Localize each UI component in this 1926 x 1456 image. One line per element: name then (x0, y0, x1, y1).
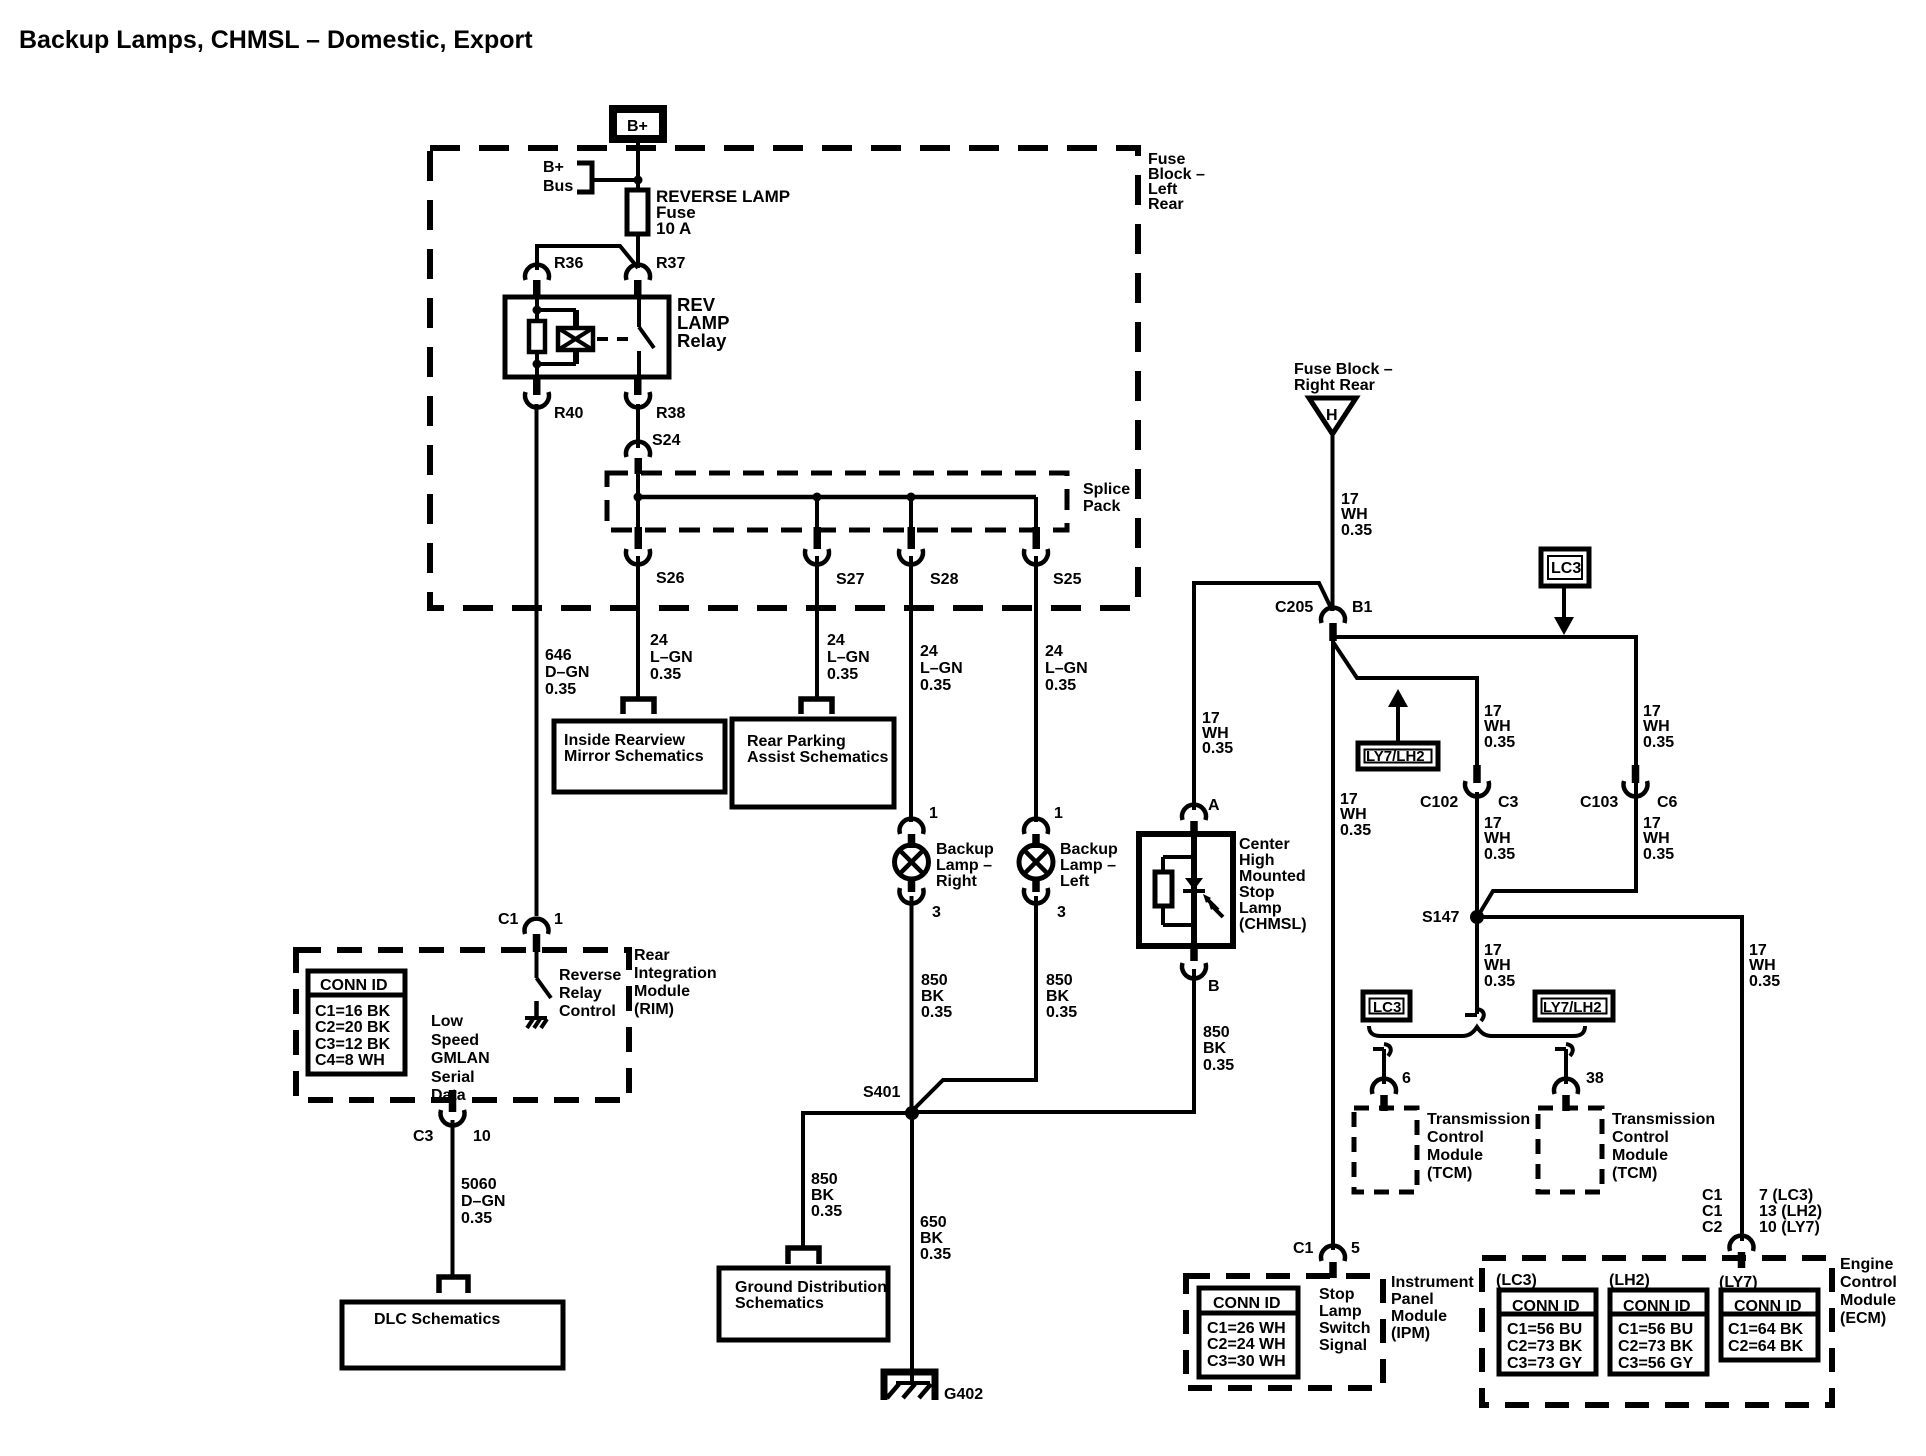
label wire 850 BK 0.35 (CHMSL) (1203, 1024, 1234, 1074)
svg-text:0.35: 0.35 (545, 681, 576, 698)
svg-text:0.35: 0.35 (1046, 1004, 1077, 1021)
svg-text:7 (LC3): 7 (LC3) (1759, 1187, 1813, 1204)
label Instrument Panel Module (IPM) (1391, 1274, 1474, 1342)
svg-text:0.35: 0.35 (1340, 822, 1371, 839)
svg-text:WH: WH (1484, 718, 1511, 735)
svg-text:Module: Module (1612, 1147, 1668, 1164)
box Rear Parking Assist Schematics (732, 719, 894, 807)
label wire 5060 D-GN 0.35 (461, 1176, 505, 1227)
svg-text:C2: C2 (1702, 1219, 1723, 1236)
svg-text:S25: S25 (1053, 571, 1082, 588)
svg-text:B+: B+ (543, 159, 564, 176)
wire C102 to S147 (1475, 792, 1479, 917)
svg-text:WH: WH (1341, 506, 1368, 523)
svg-text:C2=73 BK: C2=73 BK (1618, 1338, 1694, 1355)
wire C205 to IPM (1331, 640, 1335, 1250)
label Fuse Block - Right Rear (1294, 361, 1393, 394)
svg-text:Signal: Signal (1319, 1337, 1367, 1354)
svg-text:B1: B1 (1352, 599, 1373, 616)
svg-text:CONN ID: CONN ID (1623, 1298, 1691, 1315)
svg-text:L–GN: L–GN (827, 649, 870, 666)
svg-text:C1: C1 (1702, 1203, 1723, 1220)
svg-text:Backup: Backup (1060, 841, 1118, 858)
svg-text:D–GN: D–GN (545, 664, 589, 681)
svg-text:0.35: 0.35 (921, 1004, 952, 1021)
svg-text:3: 3 (932, 904, 941, 921)
label wire 24 L-GN 0.35 (S25) (1045, 643, 1088, 694)
svg-text:C1=16 BK: C1=16 BK (315, 1003, 391, 1020)
svg-text:R38: R38 (656, 405, 685, 422)
wire S401 to G402 (910, 1113, 914, 1385)
svg-text:Backup Lamps, CHMSL – Domestic: Backup Lamps, CHMSL – Domestic, Export (19, 26, 533, 54)
svg-text:Right Rear: Right Rear (1294, 377, 1375, 394)
svg-text:850: 850 (811, 1171, 838, 1188)
svg-text:Mirror Schematics: Mirror Schematics (564, 748, 704, 765)
svg-text:0.35: 0.35 (1749, 973, 1780, 990)
svg-text:0.35: 0.35 (1484, 973, 1515, 990)
wire C3 to DLC (451, 1120, 455, 1277)
svg-text:10: 10 (473, 1128, 491, 1145)
svg-text:B+: B+ (627, 118, 648, 135)
arrow LC3 to wire (1554, 586, 1574, 635)
label wire 850 BK 0.35 (right lamp) (921, 972, 952, 1021)
wire S147 to brace (1465, 917, 1484, 1021)
label wire 17 WH 0.35 (above C102) (1484, 703, 1515, 751)
relay coil resistor (529, 297, 545, 377)
svg-text:Right: Right (936, 873, 978, 890)
svg-text:(LH2): (LH2) (1609, 1272, 1650, 1289)
svg-text:Center: Center (1239, 836, 1290, 853)
wire S401 to ground distribution (803, 1113, 912, 1247)
svg-text:CONN ID: CONN ID (320, 977, 388, 994)
ground (RIM internal) (525, 1018, 547, 1028)
label Reverse Relay Control (559, 967, 621, 1020)
label wire 850 BK 0.35 (left lamp) (1046, 972, 1077, 1021)
wire R38 to S24 (636, 404, 640, 448)
svg-text:Ground Distribution: Ground Distribution (735, 1279, 887, 1296)
label Stop Lamp Switch Signal (1319, 1286, 1371, 1354)
connector to ECM (1730, 1236, 1754, 1268)
wire fuse to R37 (636, 234, 640, 268)
svg-text:C1=64 BK: C1=64 BK (1728, 1321, 1804, 1338)
svg-text:(IPM): (IPM) (1391, 1325, 1430, 1342)
node H (fuse block right rear triangle) (1309, 398, 1356, 434)
svg-text:Lamp: Lamp (1319, 1303, 1362, 1320)
svg-text:Stop: Stop (1239, 884, 1275, 901)
label wire 24 L-GN 0.35 (S27) (827, 632, 870, 683)
label Transmission Control Module (TCM) LY7 (1612, 1111, 1715, 1182)
svg-text:Lamp –: Lamp – (1060, 857, 1116, 874)
svg-text:1: 1 (554, 911, 563, 928)
svg-text:5: 5 (1351, 1240, 1360, 1257)
connector R37 (626, 255, 685, 298)
wire S28 to backup lamp right (909, 556, 913, 822)
svg-text:13 (LH2): 13 (LH2) (1759, 1203, 1822, 1220)
svg-text:24: 24 (920, 643, 938, 660)
label Splice Pack (1083, 481, 1130, 515)
svg-text:C1: C1 (1293, 1240, 1314, 1257)
svg-text:L–GN: L–GN (920, 660, 963, 677)
svg-text:38: 38 (1586, 1070, 1604, 1087)
wire S25 to backup lamp left (1034, 556, 1038, 822)
box Ground Distribution Schematics (719, 1268, 888, 1340)
label wire 850 BK 0.35 (ground distribution) (811, 1171, 842, 1220)
svg-text:C6: C6 (1657, 794, 1678, 811)
pigtail to rear parking assist (801, 699, 832, 714)
svg-text:Transmission: Transmission (1612, 1111, 1715, 1128)
wire S147 to ECM (1477, 917, 1742, 1241)
box Inside Rearview Mirror Schematics (554, 721, 725, 792)
TCM box (LC3) dashed (1354, 1108, 1417, 1192)
relay switch (597, 297, 654, 377)
svg-text:Relay: Relay (559, 985, 602, 1002)
svg-text:6: 6 (1402, 1070, 1411, 1087)
svg-text:Engine: Engine (1840, 1256, 1893, 1273)
svg-text:D–GN: D–GN (461, 1193, 505, 1210)
svg-text:A: A (1208, 797, 1220, 814)
label wire 646 D-GN 0.35 (545, 647, 589, 698)
label wire 17 WH 0.35 (CHMSL feed) (1202, 710, 1233, 757)
svg-text:Module: Module (1391, 1308, 1447, 1325)
svg-text:24: 24 (827, 632, 845, 649)
IPM CONN ID table (1199, 1288, 1298, 1377)
connector C103 pin C6 (1580, 765, 1678, 811)
svg-text:S27: S27 (836, 571, 865, 588)
label wire 17 WH 0.35 (below C102) (1484, 815, 1515, 863)
svg-text:S401: S401 (863, 1084, 900, 1101)
svg-text:CONN ID: CONN ID (1512, 1298, 1580, 1315)
splice S28 (899, 527, 959, 588)
svg-text:R40: R40 (554, 405, 583, 422)
svg-text:Instrument: Instrument (1391, 1274, 1474, 1291)
svg-text:0.35: 0.35 (1203, 1057, 1234, 1074)
svg-text:WH: WH (1484, 957, 1511, 974)
wire B+ to fuse (636, 143, 640, 192)
svg-text:Switch: Switch (1319, 1320, 1371, 1337)
svg-text:C103: C103 (1580, 794, 1618, 811)
svg-text:850: 850 (921, 972, 948, 989)
connector C3 pin 10 (RIM) (413, 1090, 491, 1145)
splice S25 (1024, 527, 1082, 588)
IPM dashed box (1186, 1276, 1383, 1388)
ECM CONN ID table (LY7) (1721, 1290, 1818, 1360)
connector C102 pin C3 (1420, 765, 1519, 811)
svg-text:L–GN: L–GN (650, 649, 693, 666)
splice S24 (626, 432, 681, 474)
connector R38 (626, 377, 685, 422)
svg-text:C1: C1 (498, 911, 519, 928)
box LC3 (bottom) (1363, 992, 1410, 1020)
svg-text:(ECM): (ECM) (1840, 1310, 1886, 1327)
svg-text:(TCM): (TCM) (1612, 1165, 1657, 1182)
connector pin 6 (TCM) (1372, 1070, 1411, 1111)
svg-text:Rear: Rear (1148, 196, 1184, 213)
svg-text:Left: Left (1060, 873, 1090, 890)
svg-text:C2=24 WH: C2=24 WH (1207, 1336, 1286, 1353)
wire brace to TCM pin 6 (1373, 1044, 1391, 1084)
svg-text:0.35: 0.35 (1643, 734, 1674, 751)
svg-text:R36: R36 (554, 255, 583, 272)
svg-text:850: 850 (1046, 972, 1073, 989)
svg-text:0.35: 0.35 (811, 1203, 842, 1220)
wire lamp left to S401 (912, 896, 1036, 1111)
label ECM connector ids (1702, 1187, 1822, 1236)
svg-text:Data: Data (431, 1087, 466, 1104)
wire R36 coil feed (537, 246, 638, 270)
svg-text:LY7/LH2: LY7/LH2 (1366, 748, 1425, 765)
svg-text:Relay: Relay (677, 330, 727, 351)
svg-text:R37: R37 (656, 255, 685, 272)
svg-text:10 A: 10 A (656, 219, 691, 238)
svg-text:C2=73 BK: C2=73 BK (1507, 1338, 1583, 1355)
RIM dashed box (296, 950, 629, 1100)
svg-text:5060: 5060 (461, 1176, 497, 1193)
svg-text:C1=56 BU: C1=56 BU (1618, 1321, 1693, 1338)
svg-text:BK: BK (920, 1230, 944, 1247)
svg-text:C1=56 BU: C1=56 BU (1507, 1321, 1582, 1338)
ground G402 (884, 1372, 983, 1403)
svg-text:LC3: LC3 (1551, 560, 1581, 577)
svg-text:Schematics: Schematics (735, 1295, 824, 1312)
svg-text:0.35: 0.35 (827, 666, 858, 683)
splice S401 (863, 1084, 919, 1120)
svg-text:Integration: Integration (634, 965, 717, 982)
wire S27 to rear parking (815, 556, 819, 697)
svg-text:24: 24 (1045, 643, 1063, 660)
svg-text:S26: S26 (656, 570, 685, 587)
svg-text:C102: C102 (1420, 794, 1458, 811)
svg-text:C3=12 BK: C3=12 BK (315, 1036, 391, 1053)
lamp E3: CHMSL box (1139, 834, 1307, 946)
label Engine Control Module (ECM) (1840, 1256, 1897, 1327)
svg-text:Module: Module (1840, 1292, 1896, 1309)
svg-text:C2=64 BK: C2=64 BK (1728, 1338, 1804, 1355)
svg-text:Bus: Bus (543, 178, 573, 195)
box DLC Schematics (342, 1302, 563, 1368)
svg-text:BK: BK (921, 988, 945, 1005)
TCM box (LY7/LH2) dashed (1538, 1108, 1602, 1192)
svg-text:High: High (1239, 852, 1275, 869)
box LY7/LH2 (mid) (1358, 743, 1438, 769)
svg-text:Reverse: Reverse (559, 967, 621, 984)
arrow LY7/LH2 to wire (1388, 689, 1408, 743)
svg-text:WH: WH (1484, 830, 1511, 847)
svg-text:Mounted: Mounted (1239, 868, 1306, 885)
svg-text:C3: C3 (413, 1128, 434, 1145)
svg-text:CONN ID: CONN ID (1213, 1295, 1281, 1312)
CHMSL internal LED (1183, 878, 1223, 917)
svg-text:C4=8 WH: C4=8 WH (315, 1052, 385, 1069)
label wire 17 WH 0.35 (stop lamp signal) (1340, 791, 1371, 839)
svg-text:0.35: 0.35 (1202, 740, 1233, 757)
box LY7/LH2 (bottom) (1535, 992, 1613, 1020)
svg-text:DLC Schematics: DLC Schematics (374, 1311, 500, 1328)
svg-text:S24: S24 (652, 432, 681, 449)
svg-text:Fuse Block –: Fuse Block – (1294, 361, 1393, 378)
svg-text:10 (LY7): 10 (LY7) (1759, 1219, 1820, 1236)
svg-text:B: B (1208, 978, 1220, 995)
label wire 17 WH 0.35 (below S147) (1484, 942, 1515, 990)
brace (engine split) (1369, 1026, 1585, 1036)
wire CHMSL B to S401 (912, 969, 1194, 1112)
svg-text:Lamp: Lamp (1239, 900, 1282, 917)
connector R36 (525, 255, 583, 298)
svg-text:Serial: Serial (431, 1069, 475, 1086)
svg-text:Low: Low (431, 1013, 464, 1030)
wire C205 branch to C102 (1333, 642, 1477, 765)
ECM CONN ID table (LC3) (1499, 1290, 1596, 1374)
connector C1 (RIM) (498, 911, 563, 952)
svg-text:(CHMSL): (CHMSL) (1239, 916, 1307, 933)
svg-text:Inside Rearview: Inside Rearview (564, 732, 686, 749)
svg-text:G402: G402 (944, 1386, 983, 1403)
svg-text:Stop: Stop (1319, 1286, 1355, 1303)
RIM CONN ID table (308, 971, 405, 1074)
wire H to C205 (1331, 436, 1335, 611)
svg-text:0.35: 0.35 (920, 1246, 951, 1263)
svg-text:C1=26 WH: C1=26 WH (1207, 1320, 1286, 1337)
svg-text:0.35: 0.35 (1484, 734, 1515, 751)
fuse block left rear (dashed box) (430, 148, 1138, 608)
pigtail to mirror schematics (623, 699, 654, 714)
svg-text:Pack: Pack (1083, 498, 1120, 515)
svg-text:C205: C205 (1275, 599, 1313, 616)
svg-text:Rear Parking: Rear Parking (747, 733, 846, 750)
box LC3 (top) (1541, 549, 1589, 586)
splice S26 (626, 527, 685, 587)
wire S26 to mirror schematics (636, 556, 640, 697)
fuse F: REVERSE LAMP Fuse 10 A (627, 187, 790, 238)
label wire 17 WH 0.35 (ECM branch) (1749, 942, 1780, 990)
svg-text:WH: WH (1643, 718, 1670, 735)
svg-text:C3=73 GY: C3=73 GY (1507, 1355, 1582, 1372)
svg-text:0.35: 0.35 (1341, 522, 1372, 539)
splice pack (dashed box) (607, 473, 1067, 530)
svg-text:(TCM): (TCM) (1427, 1165, 1472, 1182)
connector C205 pin B1 (1275, 599, 1373, 641)
svg-text:GMLAN: GMLAN (431, 1050, 490, 1067)
svg-text:(RIM): (RIM) (634, 1001, 674, 1018)
pigtail to ground distribution (788, 1248, 819, 1264)
svg-text:Splice: Splice (1083, 481, 1130, 498)
lamp E1: Backup Lamp Right (895, 805, 995, 921)
splice S27 (805, 527, 865, 588)
pigtail to DLC (439, 1277, 468, 1293)
svg-text:0.35: 0.35 (1045, 677, 1076, 694)
svg-text:BK: BK (811, 1187, 835, 1204)
wire R40 to RIM C1 (535, 404, 539, 916)
label Transmission Control Module (TCM) LC3 (1427, 1111, 1530, 1182)
svg-text:0.35: 0.35 (1484, 846, 1515, 863)
label wire 17 WH 0.35 (above C103) (1643, 703, 1674, 751)
label wire 17 WH 0.35 (below C103) (1643, 815, 1674, 863)
svg-text:0.35: 0.35 (650, 666, 681, 683)
svg-text:H: H (1326, 407, 1338, 424)
svg-text:650: 650 (920, 1214, 947, 1231)
svg-text:C3=56 GY: C3=56 GY (1618, 1355, 1693, 1372)
relay U: REV LAMP Relay box (505, 294, 729, 377)
svg-text:C1: C1 (1702, 1187, 1723, 1204)
label Low Speed GMLAN Serial Data (431, 1013, 490, 1104)
svg-text:WH: WH (1749, 957, 1776, 974)
svg-text:LC3: LC3 (1373, 999, 1401, 1016)
svg-text:Speed: Speed (431, 1032, 479, 1049)
wire splice bus (634, 458, 1037, 531)
connector C1 pin 5 (IPM) (1293, 1240, 1360, 1278)
svg-text:0.35: 0.35 (920, 677, 951, 694)
svg-text:C2=20 BK: C2=20 BK (315, 1019, 391, 1036)
svg-text:Lamp –: Lamp – (936, 857, 992, 874)
svg-text:L–GN: L–GN (1045, 660, 1088, 677)
svg-text:646: 646 (545, 647, 572, 664)
svg-text:Module: Module (1427, 1147, 1483, 1164)
label wire 17 WH 0.35 (H feed) (1341, 491, 1372, 539)
wire CHMSL A to C205 (1194, 583, 1332, 810)
RIM internal switch to ground (537, 950, 552, 1017)
label: Fuse Block - Left Rear (1148, 151, 1205, 213)
ECM dashed box (1482, 1258, 1832, 1405)
svg-text:1: 1 (929, 805, 938, 822)
svg-text:LY7/LH2: LY7/LH2 (1543, 999, 1602, 1016)
svg-text:850: 850 (1203, 1024, 1230, 1041)
wire brace to TCM pin 38 (1555, 1044, 1573, 1084)
svg-text:Module: Module (634, 983, 690, 1000)
B+ power symbol (613, 109, 663, 139)
node B+ Bus tap (543, 159, 643, 195)
connector pin B (CHMSL) (1182, 946, 1220, 995)
svg-text:BK: BK (1046, 988, 1070, 1005)
svg-text:Control: Control (1427, 1129, 1484, 1146)
svg-text:0.35: 0.35 (461, 1210, 492, 1227)
connector pin A (CHMSL) (1182, 797, 1220, 835)
svg-text:Assist Schematics: Assist Schematics (747, 749, 889, 766)
svg-text:0.35: 0.35 (1643, 846, 1674, 863)
svg-text:Control: Control (559, 1003, 616, 1020)
svg-text:24: 24 (650, 632, 668, 649)
label wire 650 BK 0.35 (G402) (920, 1214, 951, 1263)
svg-text:BK: BK (1203, 1040, 1227, 1057)
label wire 24 L-GN 0.35 (S28) (920, 643, 963, 694)
svg-text:Transmission: Transmission (1427, 1111, 1530, 1128)
wire C205 branch to C103 (1333, 637, 1636, 916)
label wire 24 L-GN 0.35 (S26) (650, 632, 693, 683)
label Rear Integration Module (RIM) (634, 947, 717, 1018)
svg-text:Control: Control (1612, 1129, 1669, 1146)
svg-text:CONN ID: CONN ID (1734, 1298, 1802, 1315)
svg-text:S147: S147 (1422, 909, 1459, 926)
connector pin 38 (TCM) (1554, 1070, 1604, 1111)
svg-text:3: 3 (1057, 904, 1066, 921)
splice S147 (1422, 909, 1484, 926)
svg-text:C3=30 WH: C3=30 WH (1207, 1353, 1286, 1370)
CHMSL internal resistor (1155, 834, 1194, 946)
svg-text:S28: S28 (930, 571, 959, 588)
svg-text:WH: WH (1643, 830, 1670, 847)
svg-text:Control: Control (1840, 1274, 1897, 1291)
svg-text:1: 1 (1054, 805, 1063, 822)
ECM CONN ID table (LH2) (1610, 1290, 1707, 1374)
svg-text:Backup: Backup (936, 841, 994, 858)
wire lamp right to S401 (910, 896, 914, 1113)
svg-text:(LC3): (LC3) (1496, 1272, 1537, 1289)
lamp E2: Backup Lamp Left (1019, 805, 1118, 921)
relay coil winding (537, 310, 593, 364)
svg-text:C3: C3 (1498, 794, 1519, 811)
svg-text:WH: WH (1340, 806, 1367, 823)
connector R40 (525, 377, 583, 422)
svg-text:Panel: Panel (1391, 1291, 1434, 1308)
svg-text:Rear: Rear (634, 947, 670, 964)
